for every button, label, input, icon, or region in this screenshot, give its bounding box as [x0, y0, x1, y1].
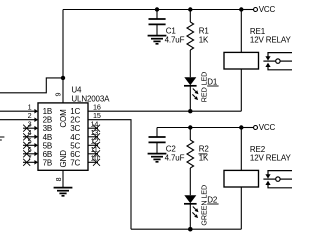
svg-text:12V RELAY: 12V RELAY	[250, 35, 292, 44]
LED D2 light arrows	[192, 207, 198, 219]
top supply rail y=127.5	[157, 127, 241, 129]
pin number 2	[28, 111, 32, 120]
svg-text:1K: 1K	[199, 153, 209, 162]
wire COM vertical x=63 from top rail to IC pin 9	[62, 10, 64, 103]
value 4.7uF of C1	[165, 35, 185, 44]
svg-text:D2: D2	[207, 195, 218, 204]
svg-text:7B: 7B	[43, 158, 53, 167]
svg-text:7C: 7C	[70, 158, 80, 167]
IC pin name 3C	[70, 124, 80, 133]
pin number 4	[28, 128, 32, 137]
ground symbol below C2	[148, 154, 167, 162]
svg-text:D1: D1	[207, 77, 218, 86]
IC pin name 5C	[70, 141, 80, 150]
wire input pin 1 from left edge	[0, 109, 38, 114]
svg-text:R2: R2	[199, 145, 210, 154]
node junction rail/C1	[155, 7, 159, 11]
pin number 5	[28, 137, 32, 146]
pin 8 label	[54, 177, 63, 181]
svg-text:COM: COM	[59, 109, 68, 128]
svg-text:VCC: VCC	[259, 5, 276, 14]
svg-text:RED LED: RED LED	[200, 72, 209, 102]
IC pin name 6C	[70, 150, 80, 159]
IC pin name 1C	[70, 107, 80, 116]
svg-text:GND: GND	[59, 150, 68, 168]
IC value ULN2003A	[71, 94, 110, 103]
label RE1	[250, 27, 266, 36]
svg-text:4.7uF: 4.7uF	[165, 153, 185, 162]
relay RE1 coil	[224, 10, 259, 112]
pin number 14	[91, 120, 99, 129]
pin number 11	[91, 145, 98, 154]
IC pin name 2B	[43, 116, 53, 125]
op IC body U4 ULN2003A	[38, 103, 88, 170]
svg-text:C2: C2	[166, 145, 177, 154]
LED D1 light arrows	[192, 89, 198, 101]
node junction rail/R2	[188, 125, 192, 129]
value 1K of R1	[199, 35, 209, 44]
pin 14 stub with no-connect X	[88, 125, 100, 132]
pin 3 stub with no-connect X	[23, 125, 38, 132]
pin 7 stub with no-connect X	[23, 159, 38, 166]
pin number 16	[93, 102, 101, 111]
IC designator U4	[71, 86, 82, 95]
pin number 15	[93, 111, 101, 120]
LED D1	[184, 77, 197, 111]
value 1K of R2	[199, 153, 209, 162]
IC pin name 7B	[43, 158, 53, 167]
wire from left edge to COM node (stepped)	[0, 78, 63, 93]
label C2	[166, 145, 177, 154]
svg-text:GREEN LED: GREEN LED	[200, 185, 209, 226]
IC pin name COM (rotated)	[59, 109, 68, 128]
node junction rail/VCC/RE2	[239, 125, 243, 129]
svg-text:7: 7	[28, 154, 32, 163]
value 4.7uF of C2	[165, 153, 185, 162]
pin number 10	[91, 154, 99, 163]
pin 10 stub with no-connect X	[88, 159, 100, 166]
bottom rail of lower section	[131, 228, 241, 230]
svg-text:12V RELAY: 12V RELAY	[250, 153, 292, 162]
label 12V RELAY of RE1	[250, 35, 292, 44]
IC pin name 3B	[43, 124, 53, 133]
label GREEN LED (rotated)	[200, 185, 209, 226]
IC pin name 6B	[43, 150, 53, 159]
svg-text:U4: U4	[71, 86, 82, 95]
relay RE1 contacts	[263, 53, 292, 70]
label D1	[207, 77, 218, 86]
svg-text:4.7uF: 4.7uF	[165, 35, 185, 44]
IC pin name 5B	[43, 141, 53, 150]
svg-text:10: 10	[91, 154, 99, 163]
node junction D2/bottom rail	[188, 227, 192, 231]
label RED LED (rotated)	[200, 72, 209, 102]
wire output pin 16 rail to relay bottom	[88, 110, 241, 112]
IC pin name 1B	[43, 107, 53, 116]
relay RE2 contacts	[263, 171, 292, 188]
pin 8 GND stub	[62, 170, 64, 187]
label VCC	[259, 123, 276, 132]
top supply rail y=9.5	[63, 9, 241, 11]
svg-text:R1: R1	[199, 27, 210, 36]
node junction rail/VCC/RE1	[239, 7, 243, 11]
VCC terminal	[241, 126, 257, 130]
label R1	[199, 27, 210, 36]
VCC terminal	[241, 8, 257, 12]
IC pin name 2C	[70, 116, 80, 125]
ground symbol below C1	[148, 36, 167, 44]
IC pin name GND (rotated)	[59, 150, 68, 168]
IC pin name 4C	[70, 133, 80, 142]
svg-text:C1: C1	[166, 27, 177, 36]
pin 13 stub with no-connect X	[88, 133, 100, 140]
pin number 1	[28, 103, 32, 112]
label RE2	[250, 145, 266, 154]
pin 9 label	[54, 93, 63, 97]
capacitor C2	[149, 128, 166, 154]
pin number 13	[91, 128, 99, 137]
resistor R2	[187, 128, 194, 196]
wire output pin 15 to lower section	[88, 120, 131, 230]
pin number 7	[28, 154, 32, 163]
label 12V RELAY of RE2	[250, 153, 292, 162]
node junction on COM wire	[61, 76, 65, 80]
node junction D1/rail	[188, 109, 192, 113]
left-edge clipped wire stub	[0, 137, 4, 140]
svg-text:15: 15	[93, 111, 101, 120]
pin 5 stub with no-connect X	[23, 142, 38, 149]
pin 12 stub with no-connect X	[88, 142, 100, 149]
svg-text:1K: 1K	[199, 35, 209, 44]
node junction rail/R1	[188, 7, 192, 11]
LED D2	[184, 195, 197, 229]
pin number 12	[91, 137, 99, 146]
wire input pin 2 from left edge	[0, 117, 38, 122]
ground symbol below IC	[54, 188, 73, 196]
IC pin name 4B	[43, 133, 53, 142]
pin 6 stub with no-connect X	[23, 150, 38, 157]
node junction D2/rail	[188, 227, 192, 231]
label D2	[207, 195, 218, 204]
svg-text:VCC: VCC	[259, 123, 276, 132]
resistor R1	[187, 10, 194, 78]
svg-text:9: 9	[54, 93, 63, 97]
svg-text:8: 8	[54, 177, 63, 181]
label VCC	[259, 5, 276, 14]
pin 11 stub with no-connect X	[88, 150, 100, 157]
pin 4 stub with no-connect X	[23, 133, 38, 140]
capacitor C1	[149, 10, 166, 36]
relay RE2 coil	[224, 128, 259, 230]
svg-text:ULN2003A: ULN2003A	[71, 94, 110, 103]
pin number 3	[28, 120, 32, 129]
label R2	[199, 145, 210, 154]
pin number 6	[28, 145, 32, 154]
label C1	[166, 27, 177, 36]
IC pin name 7C	[70, 158, 80, 167]
